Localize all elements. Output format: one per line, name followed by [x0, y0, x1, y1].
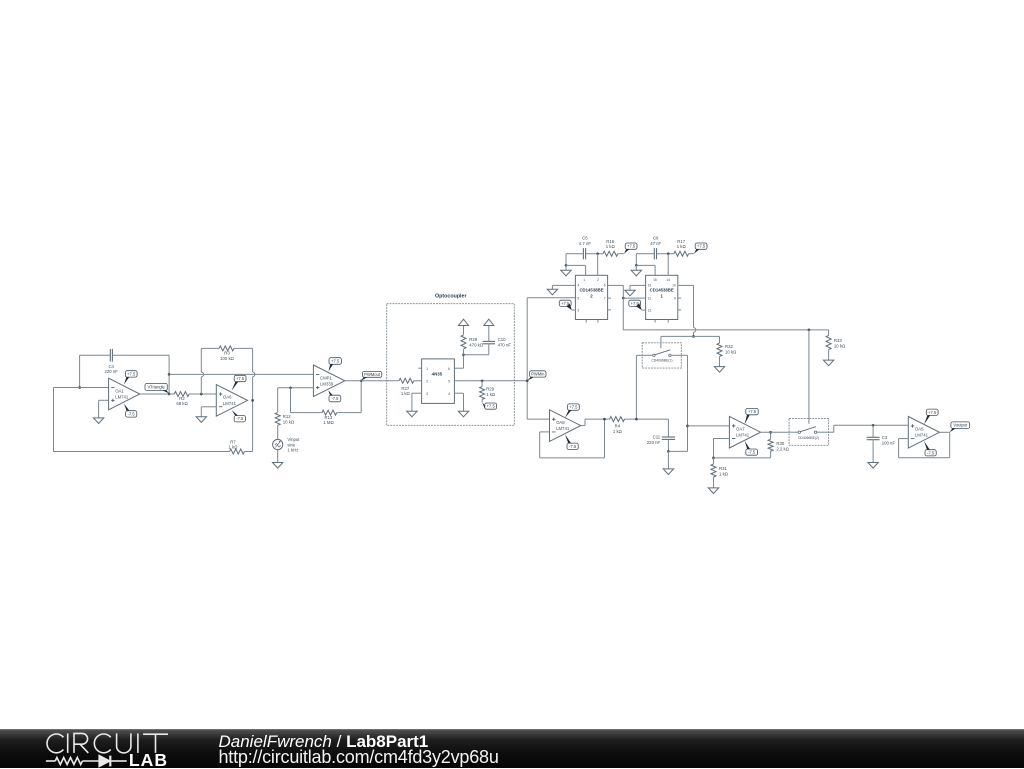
wire R17 right lead — [689, 253, 694, 255]
svg-text:4N35: 4N35 — [432, 372, 443, 377]
label R30 value — [776, 441, 789, 451]
wire C3 bottom stem — [872, 440, 874, 463]
svg-text:6: 6 — [604, 284, 606, 288]
svg-text:LM741: LM741 — [115, 394, 129, 399]
label Vinput value — [287, 437, 300, 453]
wire C6 right to R17 — [657, 253, 675, 255]
resistor R4 — [610, 417, 625, 422]
resistor R12 — [275, 413, 280, 426]
pin 3 IC2 — [577, 309, 579, 313]
svg-text:1 kHz: 1 kHz — [287, 448, 298, 453]
voltage source Vinput — [273, 439, 283, 449]
label R28 value — [469, 337, 484, 347]
wire R2 right lead — [189, 393, 216, 395]
wire switch2 left — [789, 431, 798, 433]
wire 4N35 pin6 up — [454, 355, 463, 369]
op-amp OA5 — [908, 417, 939, 449]
wire C10 top lead — [488, 326, 490, 342]
capacitor C3 — [867, 437, 880, 439]
wire hop R3-left over VTriangle wire — [201, 372, 203, 377]
svg-text:LAB: LAB — [129, 750, 168, 769]
wire OA6 inverting to ground — [201, 407, 216, 417]
wire C10 bottom to junction — [464, 344, 489, 355]
svg-text:-7.5: -7.5 — [236, 416, 244, 421]
power label -7.5 OA7 — [745, 441, 758, 455]
wire switch2 control vertical — [808, 330, 810, 419]
ground C11 — [663, 469, 673, 475]
wire R13 loop left — [291, 388, 322, 413]
wire C5 right to R16 — [586, 253, 603, 255]
svg-text:Optocoupler: Optocoupler — [435, 293, 467, 299]
wire PWMin vertical — [526, 298, 528, 419]
svg-text:LM741: LM741 — [736, 433, 750, 438]
svg-text:+7.5: +7.5 — [697, 244, 706, 249]
pin 4 4N35 — [448, 392, 450, 396]
junction PWMin — [526, 379, 529, 382]
svg-text:-7.5: -7.5 — [927, 450, 935, 455]
wire switch1 left — [636, 355, 652, 419]
footer url — [219, 747, 499, 768]
wire junction to IC1 pin15 — [636, 265, 655, 275]
wire R31 top lead — [713, 458, 715, 464]
wire R3 right vertical / OA6 output node — [252, 348, 254, 451]
resistor R32 — [717, 343, 722, 356]
junction OA8 feedback — [603, 418, 606, 421]
svg-text:1 MΩ: 1 MΩ — [323, 420, 334, 425]
wire CMP1 plus input — [278, 387, 314, 389]
pin 11 IC1 — [648, 296, 652, 300]
wire to switch1 control — [661, 336, 694, 342]
label R4 value — [613, 423, 623, 433]
wire OA8 output step — [581, 419, 610, 426]
label R7 value — [229, 439, 239, 449]
capacitor C4 — [110, 349, 112, 362]
wire hop pin10 over control bus — [694, 328, 696, 333]
svg-text:OA7: OA7 — [736, 427, 745, 432]
svg-text:5: 5 — [448, 379, 450, 383]
junction switch2 control — [808, 329, 811, 332]
svg-text:PWMin: PWMin — [531, 371, 545, 376]
svg-text:Vinput: Vinput — [287, 437, 300, 442]
pin 7 IC2 — [604, 296, 606, 300]
wire to ground OA1+ — [98, 400, 100, 418]
wire control bus IC2-Q — [623, 329, 828, 331]
pin 9 stub IC1 — [678, 297, 681, 299]
wire OA1 feedback top (C4 left lead) — [80, 354, 111, 356]
wire far-left vertical (R7 return) — [53, 388, 55, 452]
junction switch1 left tap — [635, 418, 638, 421]
pin 13 IC1 — [648, 309, 652, 313]
svg-text:OA1: OA1 — [115, 388, 124, 393]
power label -7.5 OA8 — [565, 434, 578, 449]
wire OA1 output — [140, 393, 169, 395]
pin 7 stub IC2 — [608, 297, 611, 299]
ground IC2 pin4 — [547, 289, 557, 295]
label R2 value — [176, 396, 188, 406]
wire C11 top lead — [667, 419, 669, 437]
svg-text:+7.5: +7.5 — [331, 359, 340, 364]
junction R29 — [481, 379, 484, 382]
wire PWMin top to IC2 pin5 — [527, 297, 575, 299]
wire OA5 output — [940, 431, 950, 433]
pin 2 IC2 — [597, 278, 599, 282]
power label -7.5 CMP1 — [328, 390, 340, 401]
wire OA1 output vertical — [168, 355, 170, 394]
wire R7 bottom run — [54, 451, 230, 453]
footer bar — [0, 729, 1024, 768]
svg-text:OA8: OA8 — [556, 420, 565, 425]
svg-text:OA5: OA5 — [915, 427, 924, 432]
junction C5-gnd — [565, 264, 568, 267]
svg-text:10 kΩ: 10 kΩ — [283, 419, 295, 424]
svg-text:2: 2 — [597, 278, 599, 282]
wire IC1 pin11 — [623, 297, 645, 299]
junction switch1 control — [692, 335, 695, 338]
junction R31 tap — [712, 457, 715, 460]
wire junction to IC2 pin1 — [566, 265, 586, 275]
junction R13 tap — [289, 386, 292, 389]
wire OA7 plus input — [688, 425, 730, 427]
switch S1 CD4066BE(1) — [642, 343, 681, 368]
wire C6 left — [636, 254, 654, 266]
svg-text:9: 9 — [674, 296, 676, 300]
op-amp CMP1 LM339 — [313, 365, 344, 397]
wire R29 top lead — [481, 381, 483, 387]
svg-text:R29: R29 — [486, 386, 494, 391]
power label +7.5 R29 — [482, 402, 496, 409]
wire OA8 feedback — [540, 419, 605, 458]
svg-text:100 nF: 100 nF — [882, 440, 896, 445]
wire C5 left — [566, 254, 583, 266]
junction OA7 input tap — [686, 425, 689, 428]
svg-text:R32: R32 — [725, 344, 733, 349]
pin 13 stub IC1 — [642, 309, 646, 311]
wire OA1 inverting input — [54, 387, 109, 389]
capacitor C10 — [483, 341, 495, 343]
svg-text:100 kΩ: 100 kΩ — [220, 356, 235, 361]
pin 1 IC2 — [583, 278, 585, 282]
resistor R16 — [603, 251, 618, 256]
svg-text:1: 1 — [426, 367, 428, 371]
svg-text:15: 15 — [653, 278, 657, 282]
wire IC2 pin6 vertical down — [622, 298, 624, 330]
svg-text:1 kΩ: 1 kΩ — [229, 444, 239, 449]
wire switch2 right — [817, 425, 909, 432]
ground OA6- — [196, 417, 206, 423]
ground OA1+ — [93, 418, 103, 424]
svg-text:11: 11 — [648, 296, 652, 300]
svg-text:R4: R4 — [615, 423, 621, 428]
pin 3 4N35 — [426, 392, 428, 396]
label C6 value — [650, 236, 661, 246]
wire R3 left vertical — [200, 348, 202, 394]
svg-text:4: 4 — [577, 284, 579, 288]
wire R28 bottom lead — [463, 349, 465, 355]
svg-text:1 kΩ: 1 kΩ — [613, 429, 623, 434]
svg-text:-7.5: -7.5 — [128, 411, 136, 416]
wire CMP1 output — [345, 380, 399, 382]
svg-text:R12: R12 — [283, 414, 291, 419]
wire feedback left vertical — [79, 355, 81, 387]
power label -7.5 OA6 — [232, 410, 246, 422]
capacitor C11 — [662, 437, 675, 439]
label Optocoupler — [435, 293, 467, 299]
svg-text:220 nF: 220 nF — [647, 440, 661, 445]
junction C11 bottom — [667, 450, 670, 453]
label R17 value — [677, 239, 687, 249]
resistor R30 — [768, 439, 773, 451]
wire OA7 minus loop — [714, 439, 730, 458]
wire C6 gnd stem — [635, 265, 637, 270]
junction OA7 output R30 — [769, 431, 772, 434]
svg-text:C10: C10 — [498, 337, 506, 342]
wire OA1 non-inverting input — [99, 399, 109, 401]
resistor R3 — [219, 346, 234, 351]
svg-text:CD14538BE: CD14538BE — [579, 288, 603, 293]
ground C6 — [631, 270, 641, 276]
op-amp OA8 — [550, 410, 581, 442]
svg-text:R30: R30 — [776, 441, 784, 446]
ground R32 — [714, 367, 724, 373]
node VTriangle — [145, 383, 169, 393]
resistor R29 — [480, 387, 485, 400]
wire switch1 right — [671, 355, 687, 426]
resistor R31 — [711, 464, 716, 477]
pin 2 4N35 — [426, 379, 428, 383]
IC U1 4N35 — [422, 359, 455, 404]
label R16 value — [606, 239, 616, 249]
label C3 value — [882, 435, 896, 445]
pin 12 IC1 — [648, 284, 652, 288]
svg-text:+7.5: +7.5 — [487, 404, 496, 409]
svg-text:-7.5: -7.5 — [331, 396, 339, 401]
svg-text:+7.5: +7.5 — [627, 244, 636, 249]
power label +7.5 OA5 — [924, 409, 938, 424]
wire OA7 output — [761, 431, 790, 433]
pin 9 IC1 — [674, 296, 676, 300]
label C5 value — [579, 236, 592, 246]
svg-text:470 kΩ: 470 kΩ — [469, 342, 484, 347]
label C4 value — [105, 364, 119, 374]
node PWMin — [527, 371, 546, 381]
svg-text:7: 7 — [604, 296, 606, 300]
svg-text:+7.5: +7.5 — [569, 405, 578, 410]
svg-text:PWMout: PWMout — [364, 372, 381, 377]
label R33 value — [834, 338, 846, 348]
resistor R2 — [174, 392, 189, 397]
svg-text:1 kΩ: 1 kΩ — [401, 391, 411, 396]
pin 5 4N35 — [448, 379, 450, 383]
wire R4 right — [625, 418, 669, 420]
wire C3 top lead — [872, 425, 874, 437]
svg-text:1: 1 — [583, 278, 585, 282]
bottom stubs IC1 — [655, 320, 668, 323]
ground IC1 pin12 — [625, 290, 635, 296]
right lower stub IC1 — [678, 309, 681, 311]
power label +7.5 IC1 — [629, 300, 642, 310]
ground 4N35 pin4 — [458, 411, 468, 417]
wire R2 left lead — [169, 393, 174, 395]
op-amp OA1 — [109, 378, 140, 410]
ground Vinput — [273, 463, 283, 469]
svg-text:13: 13 — [648, 309, 652, 313]
power label +7.5 CMP1 — [328, 358, 341, 372]
wire C11 to switch1-right — [668, 426, 687, 452]
svg-text:R31: R31 — [719, 466, 727, 471]
CircuitLab logo resistor-diode — [46, 756, 127, 767]
pin 5 IC2 — [577, 296, 579, 300]
svg-text:+7.5: +7.5 — [928, 410, 937, 415]
svg-text:12: 12 — [648, 284, 652, 288]
svg-text:3: 3 — [426, 392, 428, 396]
svg-text:CD4066BE(1): CD4066BE(1) — [651, 359, 672, 363]
svg-text:3: 3 — [577, 309, 579, 313]
power label +7.5 OA1 — [124, 371, 137, 385]
pin 1 4N35 — [418, 367, 428, 371]
wire R12 to source — [277, 425, 279, 439]
right lower stub IC2 — [608, 309, 611, 311]
ground 4N35 pin3 — [407, 411, 417, 417]
node Voutput — [950, 422, 970, 432]
label R13 value — [323, 415, 334, 425]
junction C3 tap — [872, 424, 875, 427]
power label +7.5 OA6 — [232, 375, 246, 391]
pin 6 4N35 — [448, 367, 450, 371]
pin 3 stub IC2 — [572, 309, 576, 311]
wire 4N35 pin4 to ground — [454, 393, 463, 411]
wire C11 ground stem — [667, 451, 669, 469]
svg-text:OA6: OA6 — [223, 395, 232, 400]
power label +7.5 IC2 — [559, 300, 572, 310]
wire pin2 vertical — [597, 254, 599, 276]
op-amp OA6 — [216, 385, 247, 417]
wire R31 to ground — [713, 477, 715, 488]
wire PWMin bottom to OA8 — [527, 418, 549, 420]
wire 4N35 pin3 to ground — [412, 393, 422, 411]
bottom stubs IC2 — [586, 320, 598, 323]
junction OA1 output — [168, 393, 171, 396]
junction VTriangle tap — [168, 373, 171, 376]
wire R7 right lead — [244, 451, 252, 453]
ground R33 — [823, 360, 833, 366]
label R31 value — [719, 466, 729, 476]
resistor R27 — [399, 378, 414, 383]
wire R33 top lead — [828, 330, 830, 336]
svg-text:47 nF: 47 nF — [650, 241, 661, 246]
ground R31 — [708, 488, 718, 494]
svg-text:1 kΩ: 1 kΩ — [486, 392, 496, 397]
svg-text:4.7 nF: 4.7 nF — [579, 241, 592, 246]
wire 4N35 pin5 output — [454, 380, 527, 382]
power label +7.5 OA7 — [745, 408, 759, 424]
junction PWMout — [360, 379, 363, 382]
wire R16 right lead — [618, 253, 624, 255]
svg-text:14: 14 — [666, 278, 670, 282]
junction IC2 pin2 — [596, 252, 599, 255]
pin 14 IC1 — [666, 278, 670, 282]
svg-text:+7.5: +7.5 — [236, 376, 245, 381]
power arrow R28 — [459, 319, 469, 325]
IC U3 CD14538BE — [646, 275, 678, 319]
pin 10 IC1 — [672, 284, 676, 288]
wire R32 to ground — [719, 357, 721, 367]
svg-text:+7.5: +7.5 — [748, 409, 757, 414]
junction R28/C10 — [462, 353, 465, 356]
svg-text:10 kΩ: 10 kΩ — [725, 349, 737, 354]
wire C11 bottom — [667, 439, 669, 451]
wire R13 loop right — [337, 381, 362, 413]
svg-text:-7.5: -7.5 — [569, 444, 577, 449]
svg-text:68 kΩ: 68 kΩ — [176, 401, 188, 406]
svg-text:Voutput: Voutput — [953, 423, 968, 428]
dashed box Optocoupler — [387, 304, 515, 426]
svg-text:LM741: LM741 — [223, 401, 237, 406]
resistor R28 — [461, 335, 466, 349]
wire IC1 pin10 — [678, 285, 694, 336]
svg-text:+7.5: +7.5 — [127, 371, 136, 376]
svg-text:1 kΩ: 1 kΩ — [606, 244, 616, 249]
svg-text:2: 2 — [426, 379, 428, 383]
wire VTriangle to CMP1 — [169, 373, 313, 375]
CircuitLab logo CIRCUIT — [47, 733, 168, 753]
wire OA5 feedback — [899, 432, 950, 458]
svg-text:1 kΩ: 1 kΩ — [719, 472, 729, 477]
wire IC2 pin4 to ground — [552, 285, 575, 289]
junction OA6 output — [251, 399, 254, 402]
svg-text:CD4066BE(2): CD4066BE(2) — [798, 436, 819, 440]
svg-text:10: 10 — [672, 284, 676, 288]
resistor R17 — [674, 251, 689, 256]
svg-text:10 kΩ: 10 kΩ — [834, 343, 846, 348]
wire to R32 — [694, 336, 720, 343]
wire R30 top lead — [770, 432, 772, 439]
svg-text:R33: R33 — [834, 338, 842, 343]
wire R3 top left lead — [201, 347, 219, 349]
svg-text:R28: R28 — [469, 337, 477, 342]
op-amp OA7 — [729, 416, 760, 448]
label R29 value — [486, 386, 496, 396]
svg-text:sine: sine — [287, 442, 295, 447]
wire IC2 pin6 — [608, 285, 624, 298]
svg-text:-7.5: -7.5 — [748, 450, 756, 455]
wire C5 gnd stem — [565, 265, 567, 270]
pin 15 IC1 — [653, 278, 657, 282]
svg-text:CD14538BE: CD14538BE — [650, 288, 674, 293]
pin 4 IC2 — [577, 284, 579, 288]
svg-text:6: 6 — [448, 367, 450, 371]
junction C6-gnd — [635, 264, 638, 267]
wire hop OA6-output over VTriangle wire — [253, 372, 255, 377]
resistor R13 — [322, 410, 337, 415]
ground C3 — [868, 463, 878, 469]
svg-text:470 nF: 470 nF — [498, 342, 512, 347]
ground C5 — [561, 270, 571, 276]
junction IC2 pin6/IC1 pin11 — [622, 297, 625, 300]
resistor R7 — [230, 449, 245, 454]
junction R3 left leg — [200, 393, 203, 396]
label R27 value — [401, 386, 411, 396]
svg-text:VTriangle: VTriangle — [147, 384, 165, 389]
power label -7.5 OA5 — [924, 441, 936, 456]
svg-text:LM339: LM339 — [320, 382, 334, 387]
capacitor C5 — [583, 248, 585, 259]
wire R33 to ground — [828, 350, 830, 361]
wire R29 bottom lead — [481, 399, 483, 402]
power label +7.5 OA8 — [565, 404, 579, 418]
wire pin14 vertical — [667, 254, 669, 276]
junction at OA1 inverting input — [78, 386, 81, 389]
wire IC1 pin12 to ground — [630, 285, 646, 290]
